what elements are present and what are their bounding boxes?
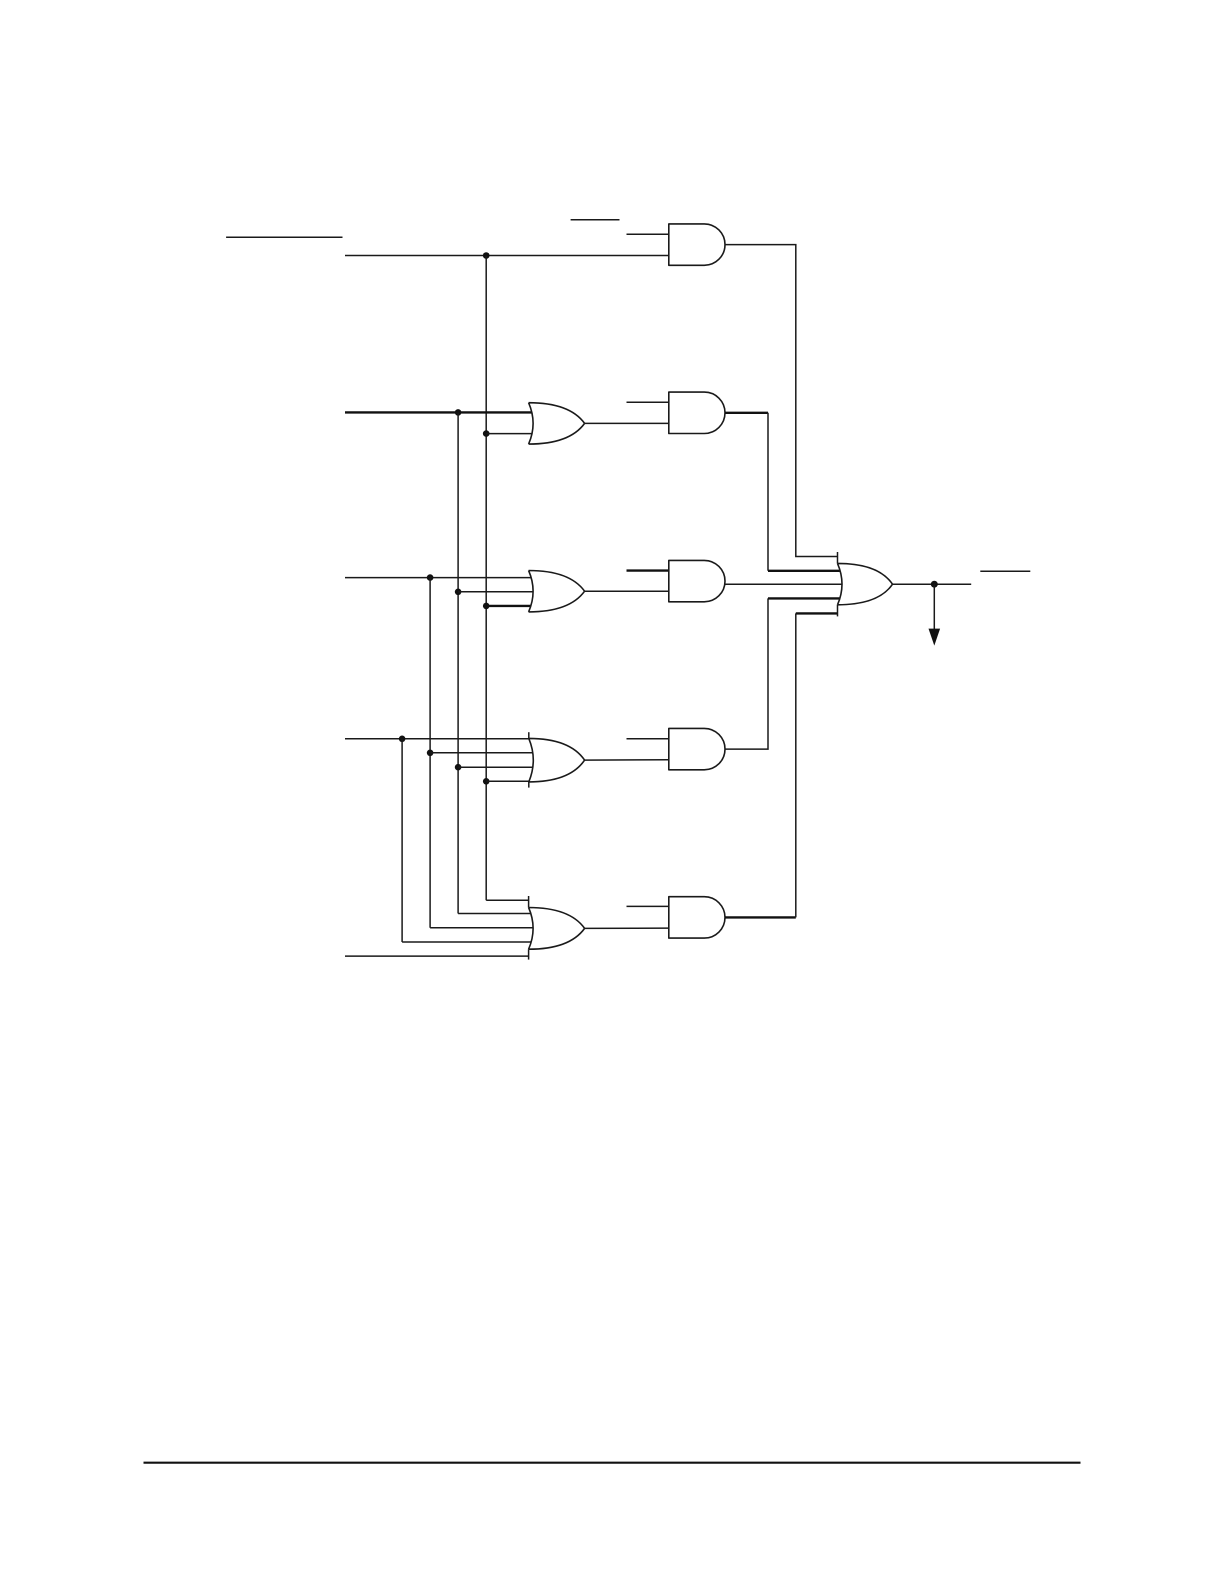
wire C to O4 bbox=[458, 766, 533, 768]
input 1 label line bbox=[226, 236, 342, 238]
wire U5 output bbox=[725, 916, 796, 918]
node input4 junction bbox=[399, 736, 406, 743]
wire bus column C bbox=[457, 412, 459, 913]
node D to O2 bbox=[483, 430, 490, 437]
and-gate U1 bbox=[669, 224, 725, 265]
wire U5 enable stub bbox=[627, 905, 669, 907]
and-gate U4 bbox=[669, 728, 725, 769]
and-gate U3 bbox=[669, 560, 725, 601]
or-gate O4 bbox=[529, 738, 585, 782]
wire C to O5 bbox=[458, 913, 531, 915]
or-gate O5 input stub top bbox=[528, 896, 530, 908]
node input1 junction bbox=[483, 252, 490, 259]
wire U5 to O6 bbox=[796, 612, 838, 614]
wire U4 enable stub bbox=[627, 738, 669, 740]
wire U4 output bbox=[725, 598, 768, 749]
wire U2 output bbox=[725, 412, 768, 414]
wire C to O3 bbox=[458, 591, 533, 593]
wire U3 enable stub bbox=[627, 569, 669, 571]
wire O5 output bbox=[585, 927, 669, 929]
wire U2 enable stub bbox=[627, 401, 669, 403]
or-gate O4 input stub bottom bbox=[528, 782, 530, 788]
label overline U1 bbox=[571, 219, 620, 221]
node C to O3 bbox=[455, 589, 462, 596]
wire B to O5 bbox=[430, 927, 533, 929]
node input2 junction bbox=[455, 409, 462, 416]
wire input 4 bbox=[345, 738, 529, 740]
arrowhead bbox=[929, 629, 941, 646]
output label line bbox=[980, 570, 1030, 572]
wire input 2 bbox=[345, 411, 532, 413]
wire bus column A bbox=[401, 739, 403, 942]
footer rule bbox=[144, 1462, 1081, 1464]
node B to O4 bbox=[427, 750, 434, 757]
wire IST output bbox=[893, 583, 972, 585]
or-gate O6 input stub top bbox=[837, 552, 839, 563]
wire D to O2 bbox=[486, 433, 532, 435]
node D to O4 bbox=[483, 778, 490, 785]
wire U1 output bbox=[725, 245, 838, 557]
wire bus column B bbox=[429, 578, 431, 928]
wire O4 output bbox=[585, 759, 669, 761]
wire U2 output down bbox=[767, 413, 769, 571]
wire D to O4 bbox=[486, 780, 529, 782]
wire O3 output bbox=[585, 590, 669, 592]
wire U3 output bbox=[725, 583, 842, 585]
wire B to O4 bbox=[430, 752, 533, 754]
wire U2 to O6 bbox=[768, 570, 840, 572]
node input3 junction bbox=[427, 574, 434, 581]
wire A to O5 bbox=[402, 941, 531, 943]
and-gate U2 bbox=[669, 392, 725, 433]
or-gate O2 bbox=[529, 403, 585, 444]
or-gate O5 bbox=[529, 908, 585, 950]
wire U1 enable stub bbox=[627, 233, 669, 235]
and-gate U5 bbox=[669, 897, 725, 938]
wire O2 output bbox=[585, 422, 669, 424]
wire input 1 bbox=[345, 255, 669, 257]
node C to O4 bbox=[455, 764, 462, 771]
node IST junction bbox=[931, 581, 938, 588]
or-gate O5 input stub bottom bbox=[528, 949, 530, 959]
wire U5 output up bbox=[795, 613, 797, 917]
or-gate O4 input stub top bbox=[528, 732, 530, 738]
wire D to O5 bbox=[486, 899, 528, 901]
or-gate O6 bbox=[838, 563, 893, 604]
wire U4 to O6 bbox=[768, 597, 840, 599]
wire input 5 bbox=[345, 955, 529, 957]
or-gate O6 input stub bottom bbox=[837, 605, 839, 617]
node D to O3 bbox=[483, 603, 490, 610]
or-gate O3 bbox=[529, 571, 585, 612]
wire D to O3 bbox=[486, 605, 531, 607]
wire bus column D bbox=[485, 256, 487, 901]
wire to arrow bbox=[933, 584, 935, 630]
wire input 3 bbox=[345, 577, 531, 579]
